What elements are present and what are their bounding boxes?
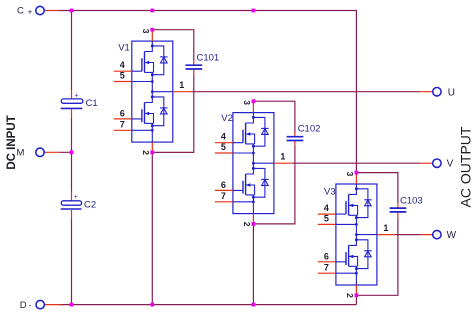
svg-text:D: D <box>20 300 27 311</box>
svg-text:AC OUTPUT: AC OUTPUT <box>458 126 474 207</box>
svg-text:+: + <box>74 92 78 99</box>
svg-text:V2: V2 <box>221 113 233 124</box>
svg-text:C: C <box>17 6 24 17</box>
svg-text:V3: V3 <box>324 187 336 198</box>
svg-text:-: - <box>29 301 32 310</box>
svg-text:W: W <box>447 230 457 241</box>
svg-text:U: U <box>448 88 455 99</box>
svg-text:C1: C1 <box>86 98 98 109</box>
svg-text:V: V <box>447 159 454 170</box>
svg-text:V1: V1 <box>118 43 130 54</box>
svg-text:C102: C102 <box>298 124 321 135</box>
svg-text:C2: C2 <box>84 200 96 211</box>
svg-text:C103: C103 <box>400 196 423 207</box>
svg-text:+: + <box>74 194 78 201</box>
svg-text:DC INPUT: DC INPUT <box>6 115 18 169</box>
svg-text:+: + <box>28 8 33 17</box>
svg-text:C101: C101 <box>197 53 220 64</box>
